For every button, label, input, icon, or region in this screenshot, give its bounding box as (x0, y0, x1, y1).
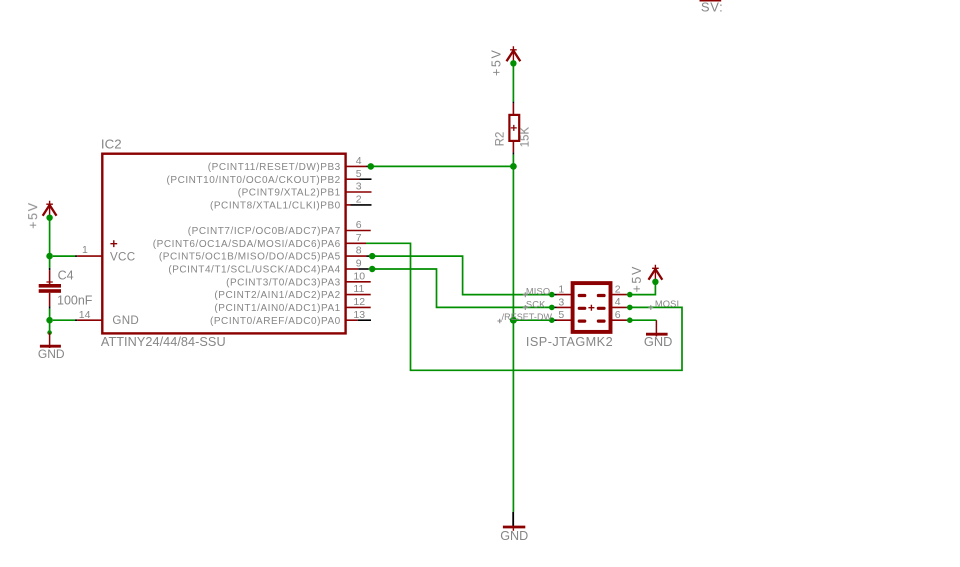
junction dot GND node (46, 317, 53, 324)
svg-text:C4: C4 (58, 268, 74, 282)
svg-text:(PCINT8/XTAL1/CLKI)PB0: (PCINT8/XTAL1/CLKI)PB0 (210, 201, 341, 212)
svg-text:VCC: VCC (110, 250, 135, 263)
wire C4 to GND node (49, 309, 51, 321)
svg-text:SV:: SV: (701, 0, 724, 15)
svg-text:GND: GND (644, 334, 672, 349)
ISP contact dashes (578, 294, 587, 297)
ISP pin 5 stub (557, 319, 574, 321)
svg-text:(PCINT6/OC1A/SDA/MOSI/ADC6)PA6: (PCINT6/OC1A/SDA/MOSI/ADC6)PA6 (153, 239, 341, 250)
svg-text:13: 13 (353, 309, 365, 321)
+5V supply symbol (top) (507, 46, 521, 63)
svg-text:4: 4 (356, 155, 362, 167)
IC2 pin 10 stub (346, 281, 371, 283)
wire GND node to pin 14 (53, 319, 75, 321)
wire pin4 PB3 to RESET net (371, 165, 514, 167)
junction dot pin 8 (369, 253, 375, 259)
junction dot RESET/R2 (510, 163, 517, 170)
IC2 origin cross (110, 240, 117, 247)
IC2 pin 4 stub (346, 165, 367, 167)
wire VCC node to pin 1 (53, 255, 75, 257)
svg-text:ATTINY24/44/84-SSU: ATTINY24/44/84-SSU (101, 335, 226, 349)
IC2 pin 12 stub (346, 306, 371, 308)
svg-text:+5V: +5V (630, 265, 644, 292)
IC2 ATTINY24/44/84-SSU body (102, 154, 345, 334)
svg-text:7: 7 (356, 232, 362, 244)
IC2 pin 5 stub (346, 178, 360, 180)
IC2 pin 1 VCC stub (77, 255, 102, 257)
svg-text:1: 1 (558, 284, 564, 296)
capacitor C4 (39, 270, 61, 306)
label origin cross MOSI (648, 305, 653, 310)
IC2 pin 9 stub (346, 268, 359, 270)
IC2 pin 6 stub (346, 230, 371, 232)
junction dot at +5V (left) (46, 215, 52, 221)
svg-text:IC2: IC2 (101, 137, 122, 152)
junction dot at +5V (ISP) (652, 279, 658, 285)
svg-text:(PCINT3/T0/ADC3)PA3: (PCINT3/T0/ADC3)PA3 (226, 277, 341, 288)
wire GND node to GND symbol (49, 320, 51, 332)
svg-text:MISO: MISO (526, 287, 550, 297)
svg-text:(PCINT7/ICP/OC0B/ADC7)PA7: (PCINT7/ICP/OC0B/ADC7)PA7 (188, 226, 341, 237)
svg-text:12: 12 (353, 296, 365, 308)
IC2 pin 7 stub (346, 242, 367, 244)
svg-text:2: 2 (356, 194, 362, 206)
svg-text:GND: GND (38, 347, 65, 361)
ISP pin 4 stub (610, 306, 627, 308)
IC2 pin 2 stub (346, 204, 351, 206)
label origin cross SCK (523, 305, 528, 310)
svg-text:9: 9 (356, 258, 362, 270)
wire R2 to RESET net (512, 155, 514, 167)
svg-text:(PCINT2/AIN1/ADC2)PA2: (PCINT2/AIN1/ADC2)PA2 (214, 290, 340, 301)
IC2 pin 8 stub (346, 255, 367, 257)
ISP pin 1 stub (557, 294, 574, 296)
IC2 pin 11 stub (346, 294, 371, 296)
junction dot VCC node (46, 253, 53, 260)
+5V supply symbol (left) (43, 201, 57, 218)
svg-text:+5V: +5V (26, 201, 40, 228)
ground symbol (left) (40, 333, 61, 348)
ground symbol (bottom center) (503, 512, 525, 531)
junction dot at +5V (top) (510, 60, 516, 66)
ISP pin 3 stub (557, 306, 574, 308)
svg-text:(PCINT11/RESET/DW)PB3: (PCINT11/RESET/DW)PB3 (208, 162, 341, 173)
svg-text:1: 1 (82, 244, 88, 256)
svg-text:11: 11 (353, 283, 364, 295)
label origin cross /RESET-DW (497, 319, 502, 324)
IC2 pin 13 stub (346, 319, 358, 321)
ISP pin 6 stub (610, 319, 627, 321)
svg-text:GND: GND (500, 529, 528, 543)
svg-text:GND: GND (112, 314, 139, 327)
wire MOSI: pin7 PA6 to ISP pin 4 (366, 243, 682, 370)
wire ISP pin 6 to GND (630, 319, 657, 321)
+5V supply symbol (ISP) (649, 265, 663, 282)
wire RESET net vertical down to GND (512, 166, 514, 512)
wire MISO: pin8 PA5 to ISP pin 1 (372, 256, 552, 295)
svg-text:3: 3 (558, 296, 564, 308)
svg-text:MOSI: MOSI (655, 299, 679, 309)
svg-text:(PCINT1/AIN0/ADC1)PA1: (PCINT1/AIN0/ADC1)PA1 (214, 303, 340, 314)
svg-text:100nF: 100nF (57, 293, 93, 307)
junction dot pin 4 (368, 163, 375, 170)
svg-text:SCK: SCK (526, 299, 546, 309)
svg-text:10: 10 (353, 270, 365, 282)
svg-text:(PCINT0/AREF/ADC0)PA0: (PCINT0/AREF/ADC0)PA0 (210, 316, 341, 327)
ISP origin cross (588, 305, 594, 311)
svg-text:(PCINT4/T1/SCL/USCK/ADC4)PA4: (PCINT4/T1/SCL/USCK/ADC4)PA4 (168, 265, 340, 276)
wire SCK: pin9 PA4 to ISP pin 3 (372, 269, 552, 307)
resistor R2 (509, 103, 519, 152)
IC2 pin 14 GND stub (77, 319, 102, 321)
wire +5V to VCC node (49, 218, 51, 256)
svg-text:2: 2 (615, 283, 621, 295)
wire VCC node down to C4 (49, 256, 51, 268)
ground symbol (ISP) (646, 320, 668, 336)
svg-text:(PCINT10/INT0/OC0A/CKOUT)PB2: (PCINT10/INT0/OC0A/CKOUT)PB2 (166, 175, 340, 186)
svg-text:14: 14 (79, 309, 91, 321)
IC2 pin 3 stub (346, 191, 372, 193)
junction dot RESET net at ISP row (510, 317, 517, 324)
ISP pin 2 stub (610, 294, 627, 296)
svg-text:8: 8 (356, 245, 362, 257)
wire ISP pin 2 to +5V (630, 284, 656, 295)
wire +5V to R2 (512, 63, 514, 101)
svg-text:(PCINT5/OC1B/MISO/DO/ADC5)PA5: (PCINT5/OC1B/MISO/DO/ADC5)PA5 (159, 252, 341, 263)
svg-text:(PCINT9/XTAL2)PB1: (PCINT9/XTAL2)PB1 (238, 188, 341, 199)
svg-text:4: 4 (615, 296, 621, 308)
label origin cross MISO (523, 292, 528, 297)
wire RESET net to ISP pin 5 (513, 319, 551, 321)
svg-text:15K: 15K (520, 127, 532, 148)
svg-text:5: 5 (356, 168, 362, 180)
junction dot pin 9 (369, 266, 375, 272)
connector ISP-JTAGMK2 body (573, 283, 611, 332)
svg-text:3: 3 (356, 181, 362, 193)
svg-text:+5V: +5V (490, 49, 504, 76)
svg-text:ISP-JTAGMK2: ISP-JTAGMK2 (526, 335, 613, 349)
svg-text:6: 6 (356, 219, 362, 231)
svg-text:R2: R2 (495, 132, 507, 147)
svg-text:5: 5 (558, 309, 564, 321)
clipped symbol edge (top right) (700, 0, 722, 2)
svg-text:6: 6 (615, 309, 621, 321)
svg-text:/RESET-DW: /RESET-DW (502, 312, 553, 322)
